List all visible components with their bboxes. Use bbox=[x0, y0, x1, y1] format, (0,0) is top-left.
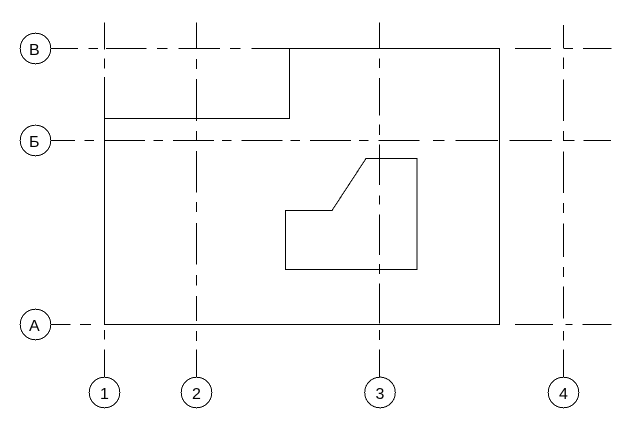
svg-text:Б: Б bbox=[29, 134, 40, 151]
grid axis line A (bottom horizontal dash-dot row) bbox=[51, 324, 612, 326]
axis bubble 4 bbox=[548, 377, 579, 408]
svg-text:4: 4 bbox=[559, 386, 568, 403]
svg-text:А: А bbox=[29, 318, 40, 335]
grid axis line B (top horizontal dash-dot row) bbox=[51, 48, 612, 50]
svg-text:2: 2 bbox=[192, 386, 201, 403]
grid axis line 2 (vertical dash-dot column) bbox=[196, 23, 198, 378]
axis bubble 1 bbox=[89, 377, 120, 408]
grid axis line 3 (vertical dash-dot column) bbox=[379, 23, 381, 378]
inner opening outline (solid polygon with diagonal) bbox=[286, 159, 418, 270]
svg-text:1: 1 bbox=[100, 386, 109, 403]
svg-text:В: В bbox=[29, 42, 40, 59]
axis bubble 3 bbox=[365, 377, 396, 408]
axis bubble A bbox=[20, 309, 51, 340]
grid axis line 4 (vertical dash-dot column) bbox=[563, 25, 565, 378]
building outline wall (solid polygon) bbox=[105, 49, 500, 325]
axis bubble 2 bbox=[181, 377, 212, 408]
svg-text:3: 3 bbox=[376, 386, 385, 403]
grid axis line 1 (vertical dash-dot column) bbox=[104, 23, 106, 378]
axis bubble B bbox=[20, 33, 51, 64]
grid axis line Б (middle horizontal dash-dot row) bbox=[51, 140, 612, 142]
axis bubble Б bbox=[20, 125, 51, 156]
